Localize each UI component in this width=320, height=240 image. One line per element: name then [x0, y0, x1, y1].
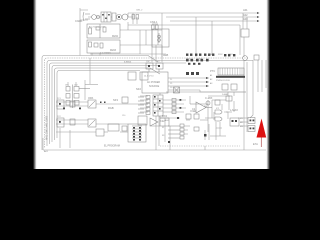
svg-text:RX2: RX2: [162, 114, 168, 118]
svg-text:D201: D201: [186, 59, 191, 61]
svg-text:E7A: E7A: [253, 142, 258, 146]
svg-text:A1: A1: [210, 74, 212, 77]
svg-text:C203: C203: [228, 54, 233, 56]
svg-text:14 4 17 10: 14 4 17 10: [144, 76, 154, 78]
svg-text:PC1: PC1: [57, 98, 61, 100]
svg-text:M202: M202: [112, 35, 119, 38]
svg-text:CN201: CN201: [75, 20, 83, 23]
svg-text:RGB: RGB: [108, 106, 114, 110]
svg-text:L-MAX: L-MAX: [230, 108, 238, 112]
svg-text:R202: R202: [218, 54, 223, 56]
svg-text:A01: A01: [243, 8, 248, 12]
svg-text:SOURCE: SOURCE: [149, 85, 160, 88]
svg-text:4 1 4 KM21: 4 1 4 KM21: [100, 53, 111, 55]
svg-text:D202: D202: [197, 59, 202, 61]
svg-text:A3: A3: [210, 82, 212, 85]
svg-text:K22: K22: [160, 119, 165, 123]
svg-text:C-MIX: C-MIX: [205, 96, 213, 100]
svg-text:AC POWER: AC POWER: [147, 81, 160, 84]
svg-text:IC2: IC2: [216, 108, 219, 110]
svg-text:A02: A02: [243, 13, 248, 17]
svg-text:R1: R1: [162, 127, 164, 129]
svg-text:ILEM16: ILEM16: [124, 62, 132, 64]
svg-text:ACL N1 F1 T2.5A: ACL N1 F1 T2.5A: [89, 25, 105, 28]
svg-text:CN2-1: CN2-1: [150, 20, 158, 24]
svg-text:C10: C10: [122, 115, 125, 117]
svg-text:R201: R201: [208, 54, 213, 56]
svg-text:D-MAX: D-MAX: [222, 93, 229, 96]
svg-text:PS2561 D203: PS2561 D203: [216, 80, 230, 82]
svg-text:NF3: NF3: [113, 98, 118, 102]
svg-text:PTC: PTC: [210, 69, 215, 73]
svg-text:CF1: CF1: [65, 85, 69, 87]
svg-text:CW: CW: [146, 61, 149, 63]
svg-text:M41 GW1 M41 GW2: M41 GW1 M41 GW2: [45, 115, 49, 140]
svg-text:C1: C1: [192, 107, 196, 111]
svg-text:A04: A04: [165, 119, 168, 122]
svg-text:M203: M203: [110, 49, 117, 52]
svg-text:A2: A2: [210, 78, 212, 81]
svg-text:AwB: AwB: [163, 53, 169, 57]
svg-text:A03: A03: [243, 17, 248, 21]
svg-text:EL PROGRAM: EL PROGRAM: [104, 145, 120, 148]
svg-text:PC2: PC2: [57, 116, 61, 118]
svg-text:R3: R3: [162, 135, 164, 137]
svg-text:CN1-2: CN1-2: [136, 10, 143, 12]
svg-text:NF2: NF2: [136, 87, 141, 91]
svg-text:C1: C1: [193, 111, 195, 113]
svg-text:OPA: OPA: [88, 96, 94, 100]
svg-text:CF2: CF2: [74, 85, 78, 87]
